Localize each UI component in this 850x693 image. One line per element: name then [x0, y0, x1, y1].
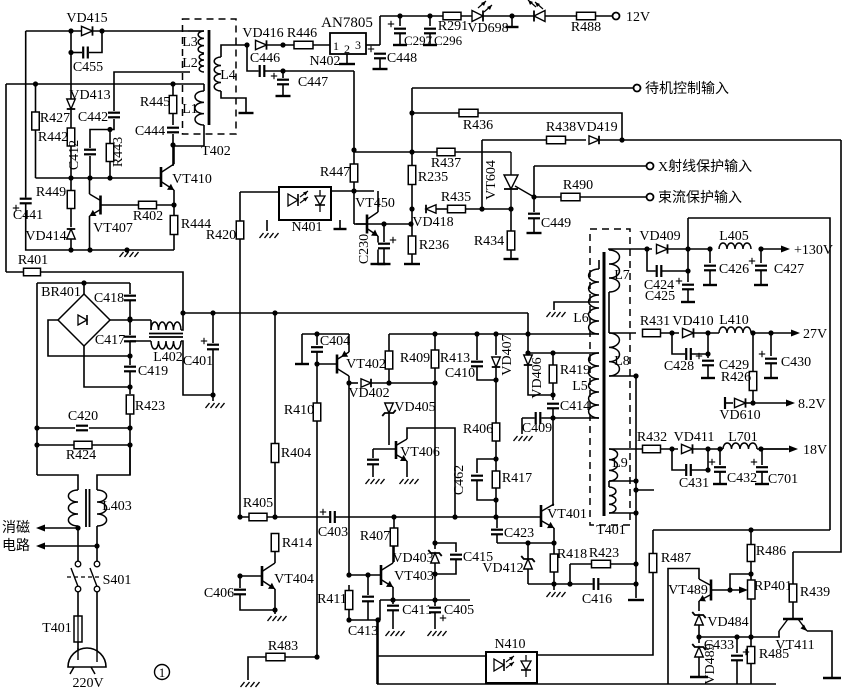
- winding L7: [609, 250, 620, 292]
- wire C411 bottom: [392, 610, 394, 629]
- wire C446 left: [247, 45, 260, 71]
- terminal standby input: [634, 85, 641, 92]
- wire C425 top: [687, 271, 689, 282]
- wire R414 to VT404: [274, 552, 276, 563]
- junction: [432, 331, 437, 336]
- capacitor C419: [123, 366, 137, 373]
- junction: [525, 331, 530, 336]
- svg-text:C433: C433: [704, 638, 734, 653]
- junction: [493, 514, 498, 519]
- junction: [685, 268, 690, 273]
- diode VD406: [524, 355, 533, 365]
- svg-text:C420: C420: [68, 409, 98, 424]
- junction: [633, 478, 638, 483]
- wire: [746, 402, 753, 404]
- resistor R402: [139, 201, 157, 209]
- wire: [707, 449, 709, 470]
- bridge rectifier BR401: [58, 294, 110, 346]
- junction: [705, 467, 710, 472]
- wire frame to VD409 node: [687, 218, 689, 249]
- svg-text:L6: L6: [573, 311, 589, 326]
- junction: [314, 361, 319, 366]
- resistor R434: [507, 231, 515, 250]
- capacitor C406: [233, 589, 247, 596]
- wire C419 to R423: [129, 371, 131, 394]
- junction: [551, 540, 556, 545]
- wire VD416 to R446: [267, 44, 294, 46]
- svg-text:R401: R401: [18, 253, 48, 268]
- junction: [509, 13, 514, 18]
- ground bar under C296: [423, 44, 437, 46]
- junction: [550, 392, 555, 397]
- svg-text:27V: 27V: [803, 327, 827, 342]
- wire standby control line: [412, 87, 633, 89]
- junction: [210, 310, 215, 315]
- junction: [314, 654, 319, 659]
- winding L8: [609, 333, 620, 376]
- svg-text:R409: R409: [400, 351, 430, 366]
- svg-text:1: 1: [159, 665, 166, 680]
- junction: [386, 380, 391, 385]
- svg-text:R431: R431: [640, 314, 670, 329]
- junction: [68, 247, 73, 252]
- capacitor C427: [754, 265, 768, 272]
- wire stub left: [301, 334, 303, 363]
- resistor R423 (sense): [592, 560, 611, 568]
- svg-text:C419: C419: [138, 364, 168, 379]
- junction: [127, 384, 132, 389]
- svg-text:N410: N410: [494, 637, 525, 652]
- capacitor C425: [681, 284, 695, 291]
- svg-text:S401: S401: [103, 573, 132, 588]
- svg-text:C401: C401: [183, 354, 213, 369]
- wire C420 row: [37, 427, 130, 429]
- svg-text:VD409: VD409: [639, 229, 680, 244]
- resistor R488: [577, 12, 596, 20]
- svg-text:BR401: BR401: [41, 285, 81, 300]
- wire: [388, 443, 390, 445]
- resistor R291: [443, 12, 461, 20]
- wire C410 top: [476, 334, 478, 360]
- svg-text:L402: L402: [153, 350, 183, 365]
- wire VD415 top rail: [26, 30, 188, 32]
- inductor L701: [723, 443, 757, 449]
- junction: [351, 188, 356, 193]
- wire emitter to R411 row: [379, 600, 381, 620]
- wire outer right column to R439: [793, 140, 841, 552]
- svg-text:C405: C405: [444, 603, 474, 618]
- junction: [99, 28, 104, 33]
- junction: [34, 425, 39, 430]
- svg-text:R405: R405: [243, 496, 273, 511]
- wire VT411 emitter: [807, 631, 832, 677]
- junction: [705, 351, 710, 356]
- choke L402 bottom winding: [151, 341, 181, 349]
- svg-text:C426: C426: [719, 262, 749, 277]
- resistor R404: [271, 444, 279, 463]
- wire C412 bottom: [89, 156, 91, 178]
- junction: [748, 634, 753, 639]
- svg-text:束流保护输入: 束流保护输入: [658, 190, 742, 206]
- wire C297 top: [399, 16, 401, 26]
- svg-text:R420: R420: [206, 228, 236, 243]
- capacitor C414: [546, 403, 560, 410]
- wire L3 to top rail: [188, 30, 204, 32]
- capacitor C410: [470, 361, 484, 368]
- wire drive column: [348, 383, 350, 575]
- svg-text:R434: R434: [474, 234, 504, 249]
- svg-text:R423: R423: [589, 546, 619, 561]
- wire VD412 bottom: [527, 569, 529, 584]
- terminal x-ray input: [647, 163, 654, 170]
- junction: [717, 446, 722, 451]
- junction: [493, 331, 498, 336]
- svg-text:R437: R437: [431, 156, 461, 171]
- capacitor C230: [377, 243, 391, 250]
- svg-text:R427: R427: [40, 111, 70, 126]
- junction: [748, 527, 753, 532]
- wire VT404 base: [240, 575, 261, 577]
- svg-text:C425: C425: [645, 289, 675, 304]
- wire to 12V rail: [379, 16, 381, 45]
- junction: [685, 246, 690, 251]
- wire C415 loop bottom: [435, 559, 456, 574]
- resistor R437: [437, 148, 455, 156]
- wire R439 to VT411: [792, 602, 794, 618]
- wire R434 bottom: [510, 250, 512, 258]
- wire: [687, 249, 689, 271]
- wire snubber top row: [528, 352, 594, 354]
- resistor R426: [749, 372, 757, 391]
- capacitor C401: [206, 344, 220, 351]
- wire C296 top: [429, 16, 431, 26]
- winding L5: [589, 353, 599, 418]
- junction: [619, 137, 624, 142]
- wire C426 top: [709, 249, 711, 263]
- wire N401 cathode: [266, 220, 268, 231]
- junction: [397, 13, 402, 18]
- junction: [531, 194, 536, 199]
- transistor VT489: [699, 579, 711, 601]
- resistor R490: [561, 193, 580, 201]
- wire far-left column: [5, 84, 7, 272]
- wire R411 bottom row: [349, 610, 378, 620]
- wire L410 out: [751, 332, 775, 334]
- wire damper to L403 right: [97, 445, 130, 490]
- wire: [570, 563, 591, 565]
- capacitor C447: [276, 79, 290, 86]
- wire VT450 collector: [377, 191, 379, 212]
- junction: [669, 330, 674, 335]
- wire VT403 emitter: [392, 587, 394, 600]
- wire: [348, 585, 350, 591]
- wire C417 to C419: [129, 341, 131, 365]
- svg-text:R432: R432: [637, 430, 667, 445]
- wire base to sample node: [356, 223, 411, 225]
- svg-text:R418: R418: [557, 547, 587, 562]
- wire C418 to C417: [129, 300, 131, 335]
- wire VT402 emitter lead: [348, 334, 350, 352]
- wire R449 to VD414: [70, 209, 72, 227]
- wire R443 bottom: [109, 162, 111, 178]
- resistor R427: [32, 112, 40, 130]
- svg-text:L405: L405: [719, 229, 749, 244]
- wire VT401 emitter: [553, 528, 555, 543]
- ground under C405: [428, 631, 447, 636]
- svg-text:C414: C414: [560, 399, 590, 414]
- resistor R418: [550, 554, 558, 572]
- junction: [750, 330, 755, 335]
- wire B+ rail start: [183, 312, 240, 314]
- transformer T402 core: [208, 30, 211, 125]
- svg-text:220V: 220V: [72, 676, 103, 691]
- wire R423 to damper: [129, 414, 131, 475]
- svg-text:C230: C230: [357, 234, 372, 264]
- wire R418 top: [553, 543, 555, 554]
- wire VT410 base rail: [36, 177, 161, 179]
- junction: [525, 540, 530, 545]
- wire C431 left: [672, 449, 686, 470]
- svg-text:R445: R445: [140, 95, 170, 110]
- inductor L410: [719, 327, 751, 333]
- capacitor C418: [123, 295, 137, 302]
- wire VT406 base cap: [372, 449, 374, 458]
- junction: [180, 310, 185, 315]
- wire VD407 top: [495, 334, 497, 355]
- wire R427 bottom: [35, 130, 37, 178]
- wire R419 bottom: [552, 383, 554, 395]
- zener VD403: [428, 550, 442, 563]
- wire wiper return: [730, 574, 751, 590]
- svg-text:R411: R411: [317, 592, 347, 607]
- wire C414 bottom: [552, 408, 554, 418]
- wire R487 top: [652, 530, 654, 554]
- wire: [594, 417, 599, 419]
- svg-text:R483: R483: [268, 639, 298, 654]
- wire to C406: [239, 576, 241, 588]
- wire C297 bottom: [399, 33, 401, 44]
- transformer T401 box: [590, 229, 630, 525]
- junction: [381, 221, 386, 226]
- junction: [758, 246, 763, 251]
- svg-text:C442: C442: [78, 110, 108, 125]
- resistor R436: [459, 109, 478, 117]
- svg-text:C430: C430: [781, 355, 811, 370]
- svg-text:VT489: VT489: [668, 583, 708, 598]
- wire C449 column: [533, 166, 535, 212]
- resistor R417: [492, 471, 500, 488]
- diode VD419: [589, 136, 599, 145]
- wire L6 top stub: [598, 260, 600, 269]
- wire bridge right lead: [110, 319, 151, 321]
- svg-text:L3: L3: [182, 35, 198, 50]
- junction: [474, 331, 479, 336]
- arrow 18V: [761, 446, 798, 453]
- bar under VT402 stub: [295, 363, 309, 365]
- resistor R410: [313, 403, 321, 421]
- junction: [644, 246, 649, 251]
- junction: [237, 514, 242, 519]
- svg-text:R447: R447: [320, 165, 350, 180]
- mains plug 220V: [68, 648, 106, 674]
- capacitor C423: [490, 529, 504, 536]
- junction: [365, 572, 370, 577]
- svg-text:VT403: VT403: [394, 569, 434, 584]
- capacitor C462: [470, 475, 484, 482]
- svg-text:待机控制输入: 待机控制输入: [645, 81, 729, 97]
- wire: [598, 333, 600, 335]
- svg-text:R402: R402: [133, 209, 163, 224]
- wire L701 out: [757, 448, 788, 450]
- wire: [411, 235, 413, 237]
- transistor VT407: [90, 194, 101, 216]
- diode VD413: [67, 99, 76, 109]
- wire C447 top: [282, 71, 284, 78]
- svg-text:C410: C410: [445, 366, 475, 381]
- capacitor C417: [123, 336, 137, 343]
- wire R406 to bus: [495, 441, 497, 517]
- ground under C411: [386, 631, 405, 636]
- svg-text:VT410: VT410: [172, 172, 212, 187]
- wire R490 to beam terminal: [580, 196, 646, 198]
- wire VD403 to C405 node: [434, 574, 436, 600]
- ground bar under R236: [404, 263, 420, 265]
- wire left drop: [376, 620, 378, 684]
- wire VT403 base row: [349, 574, 380, 576]
- svg-text:T402: T402: [201, 144, 231, 159]
- diode VD409: [657, 244, 668, 253]
- wire switch to plug: [96, 592, 98, 652]
- svg-text:VD403: VD403: [392, 551, 433, 566]
- svg-text:N401: N401: [291, 220, 322, 235]
- zener VD489: [692, 644, 706, 657]
- svg-text:R436: R436: [463, 118, 493, 133]
- capacitor C701: [755, 466, 769, 473]
- resistor R235: [408, 166, 416, 185]
- junction: [550, 415, 555, 420]
- ground bar under sense column: [628, 599, 644, 601]
- wire C401 bottom: [212, 349, 214, 401]
- resistor R449: [67, 191, 75, 209]
- wire emitter row: [380, 599, 470, 601]
- capacitor C448: [373, 53, 387, 60]
- svg-text:R417: R417: [502, 471, 532, 486]
- wire VT604 to R434: [510, 209, 512, 231]
- junction: [705, 330, 710, 335]
- wire C404 to R410: [316, 352, 318, 403]
- wire R435 up to R438: [481, 140, 483, 209]
- resistor R432: [643, 445, 661, 453]
- svg-text:R488: R488: [571, 20, 601, 35]
- wire L2 to C442: [114, 72, 190, 111]
- junction: [409, 149, 414, 154]
- wire C444 to VT410: [172, 134, 174, 166]
- choke L402 core: [149, 333, 183, 335]
- junction: [171, 202, 176, 207]
- ground under N401: [260, 233, 279, 238]
- resistor R419: [549, 365, 557, 383]
- capacitor C409: [535, 411, 542, 425]
- transformer T401 core: [603, 252, 606, 516]
- wire C455 right leg: [88, 31, 102, 53]
- wire C230 bottom: [383, 248, 385, 263]
- diode VD416: [256, 40, 267, 49]
- wire L9 top to R432 row: [609, 448, 644, 450]
- winding L6: [589, 269, 599, 334]
- wire VT450 emitter: [377, 236, 379, 263]
- junction: [432, 571, 437, 576]
- wire to R401: [6, 271, 23, 273]
- svg-text:C449: C449: [541, 216, 571, 231]
- LED VD698: [472, 1, 492, 22]
- wire R445 top: [172, 84, 174, 95]
- wire R435 to VT604 node: [466, 208, 511, 210]
- transistor VT401: [541, 504, 554, 528]
- wire L402 bottom left: [130, 340, 151, 342]
- wire C427 top: [760, 249, 762, 263]
- wire C429 bottom: [707, 365, 709, 377]
- wire R409 top: [388, 334, 390, 351]
- svg-text:C432: C432: [727, 471, 757, 486]
- svg-text:VT450: VT450: [355, 196, 395, 211]
- wire emitter node row: [497, 542, 554, 544]
- wire to R443: [109, 130, 111, 144]
- winding L4: [214, 57, 221, 91]
- wire L7 to L8: [608, 292, 610, 333]
- wire R427 top: [35, 84, 37, 112]
- junction: [525, 350, 530, 355]
- junction: [346, 617, 351, 622]
- svg-text:C409: C409: [522, 421, 552, 436]
- bar under LED node: [506, 26, 519, 28]
- svg-text:X射线保护输入: X射线保护输入: [658, 159, 752, 175]
- wire aux bottom: [609, 512, 636, 514]
- wire C401 top: [212, 313, 214, 343]
- wire: [608, 332, 610, 334]
- wire to R436: [412, 112, 459, 114]
- resistor R486: [747, 545, 755, 562]
- arrow degauss 1: [36, 525, 76, 532]
- capacitor C296: [423, 28, 437, 35]
- junction: [124, 247, 129, 252]
- junction: [567, 581, 572, 586]
- wire C426 bottom: [709, 270, 711, 284]
- svg-text:VD407: VD407: [500, 334, 515, 375]
- ground under VT406: [400, 479, 419, 484]
- svg-text:C404: C404: [320, 334, 350, 349]
- wire L9 bottom: [609, 480, 636, 482]
- resistor R405: [249, 513, 267, 521]
- svg-text:VT406: VT406: [400, 445, 440, 460]
- svg-text:R406: R406: [463, 422, 493, 437]
- svg-text:L2: L2: [182, 56, 198, 71]
- junction: [669, 446, 674, 451]
- svg-text:AN7805: AN7805: [321, 15, 373, 31]
- wire 27V row start: [609, 332, 636, 334]
- svg-text:VT604: VT604: [484, 160, 499, 200]
- junction: [346, 572, 351, 577]
- junction: [272, 310, 277, 315]
- wire R404 column: [274, 313, 276, 517]
- wire R447 to VT450 node: [353, 182, 355, 224]
- wire bridge bottom lead: [84, 346, 130, 387]
- wire L403 to switch: [77, 526, 79, 561]
- wire L1 bottom: [173, 125, 204, 146]
- wire: [150, 320, 152, 330]
- svg-text:VT404: VT404: [274, 572, 314, 587]
- wire VT406 base: [373, 448, 395, 450]
- ground under C401: [206, 403, 225, 408]
